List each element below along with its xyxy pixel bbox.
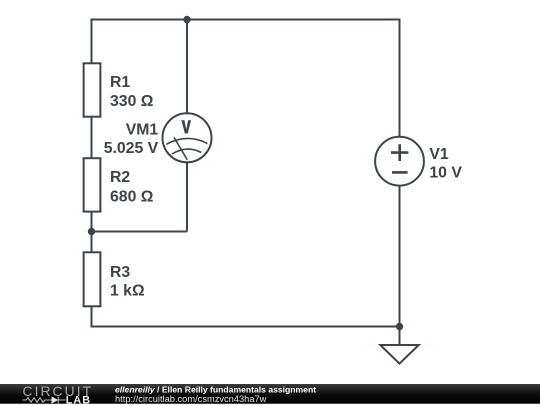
svg-text:V1: V1 xyxy=(429,146,449,163)
wire top horizontal xyxy=(91,19,401,21)
voltmeter VM1 needle xyxy=(174,137,187,159)
wire V1 bottom xyxy=(399,186,401,327)
svg-text:R3: R3 xyxy=(110,264,130,281)
wire V1 top xyxy=(399,20,401,137)
svg-text:R2: R2 xyxy=(110,169,130,186)
svg-text:1 kΩ: 1 kΩ xyxy=(110,282,145,299)
svg-text:10 V: 10 V xyxy=(429,165,462,182)
wire R1 to R2 xyxy=(91,117,93,159)
wire top-left vertical xyxy=(91,20,93,64)
ground symbol xyxy=(380,345,418,364)
svg-text:5.025 V: 5.025 V xyxy=(104,140,159,157)
junction dot bottom right xyxy=(396,323,403,330)
resistor R1 xyxy=(84,63,101,116)
wire R3 to bottom rail xyxy=(91,306,93,327)
resistor R2 xyxy=(84,158,101,211)
wire voltmeter top xyxy=(186,20,188,114)
svg-text:ellenreilly / Ellen Reilly fun: ellenreilly / Ellen Reilly fundamentals … xyxy=(115,384,316,394)
svg-text:LAB: LAB xyxy=(66,394,91,405)
svg-text:330 Ω: 330 Ω xyxy=(110,93,154,110)
wire to ground xyxy=(399,327,401,346)
wire R2 to R3 xyxy=(91,212,93,253)
voltage source V1 minus sign xyxy=(392,171,408,174)
logo diode triangle xyxy=(52,396,59,403)
junction dot top xyxy=(183,16,190,23)
voltmeter VM1 V mark xyxy=(181,120,191,133)
voltmeter VM1 upper scale arc xyxy=(166,138,207,144)
voltmeter VM1 lower scale arc xyxy=(172,149,201,154)
voltage source V1 plus sign xyxy=(391,144,408,161)
wire node A branch to voltmeter xyxy=(92,231,188,233)
footer bar xyxy=(0,384,540,404)
junction dot node A xyxy=(88,228,95,235)
logo resistor zigzag and diode xyxy=(23,397,66,404)
resistor R3 xyxy=(84,252,101,306)
svg-text:VM1: VM1 xyxy=(126,121,159,138)
wire bottom horizontal xyxy=(91,326,401,328)
svg-text:R1: R1 xyxy=(110,74,130,91)
voltmeter VM1 body xyxy=(163,113,212,162)
svg-text:680 Ω: 680 Ω xyxy=(110,189,154,206)
svg-text:http://circuitlab.com/csmzvcn4: http://circuitlab.com/csmzvcn43ha7w xyxy=(115,394,267,404)
voltage source V1 body xyxy=(375,137,424,186)
wire voltmeter bottom xyxy=(186,162,188,231)
